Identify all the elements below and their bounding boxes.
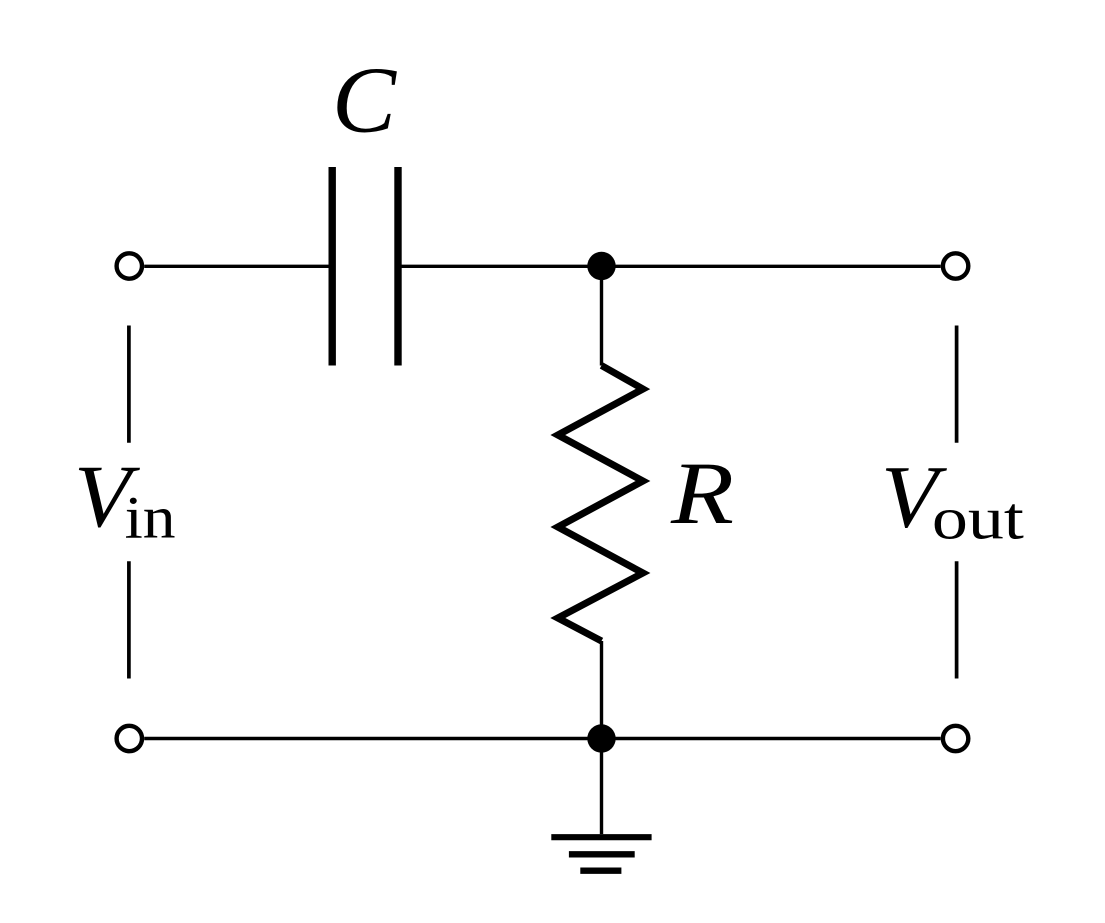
node: junction of capacitor, resistor and Vout+ [587,252,615,280]
terminal: Vout+ (top-right open circle) [943,253,968,278]
wire: bottom rail [144,737,941,740]
terminal: Vout- (bottom-right open circle) [943,726,968,751]
terminal: Vin- (bottom-left open circle) [117,726,142,751]
label Vin [74,448,176,551]
wire: top node down to resistor [600,266,603,366]
port marker: Vout lower dash [955,561,959,678]
wire: bottom node to ground [600,739,603,835]
port marker: Vin upper dash [127,326,131,443]
svg-text:R: R [670,445,734,543]
wire: resistor bottom lead to bottom node [600,641,603,739]
svg-text:out: out [932,486,1024,552]
wire: capacitor right plate to top-right terminal [398,265,941,268]
svg-text:C: C [332,49,397,153]
port marker: Vin lower dash [127,561,131,678]
capacitor C [332,167,398,366]
wire: top-left terminal to capacitor left plate [144,265,332,268]
resistor R [558,366,643,642]
terminal: Vin+ (top-left open circle) [117,253,142,278]
svg-text:in: in [125,485,176,551]
node: junction of bottom rail and ground [587,724,615,752]
label Vout [881,449,1024,552]
port marker: Vout upper dash [955,326,959,443]
ground [551,837,651,871]
